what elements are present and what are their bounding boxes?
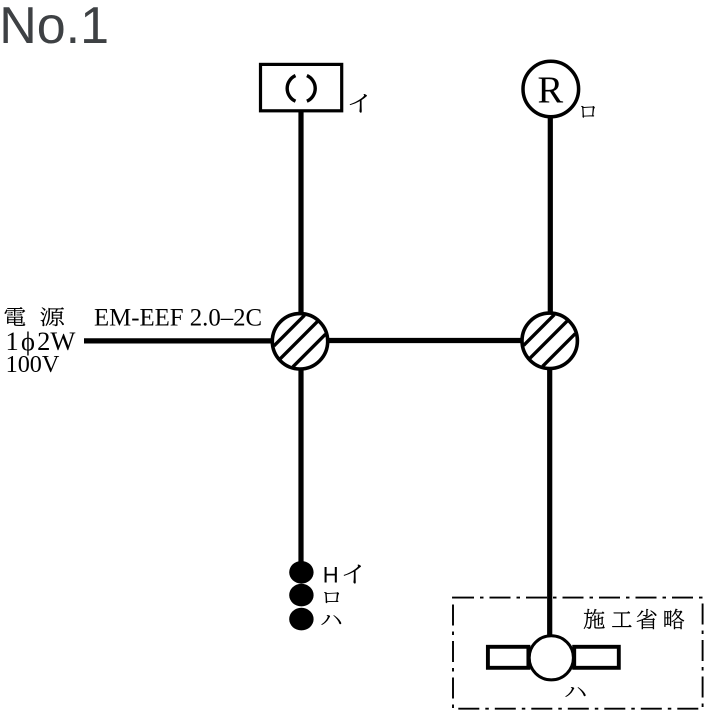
- svg-text:100V: 100V: [6, 351, 60, 378]
- svg-text:No.1: No.1: [0, 0, 109, 55]
- joint box J1 (VVF): [272, 314, 327, 369]
- label ロ (lamp receptacle): [581, 106, 595, 118]
- label 施工省略: [584, 609, 685, 630]
- fluorescent luminaire ハ: [488, 636, 619, 680]
- switch H イ: [289, 561, 313, 584]
- wire: joint box J1 to joint box J2: [324, 338, 526, 343]
- joint box J2 (VVF): [522, 313, 577, 368]
- wire: power source feed: [84, 338, 278, 343]
- svg-text:R: R: [538, 70, 564, 112]
- switch ハ: [289, 608, 313, 631]
- svg-text:H: H: [323, 562, 339, 587]
- wire: ceiling light to joint box J1: [298, 110, 303, 316]
- wire: joint box J1 to switches: [298, 366, 303, 562]
- svg-text:EM-EEF 2.0–2C: EM-EEF 2.0–2C: [94, 305, 262, 332]
- wire: joint box J2 to fluorescent light: [547, 366, 552, 637]
- label ハ (fluorescent): [565, 687, 586, 697]
- lamp receptacle R ロ: [523, 61, 579, 117]
- switch ロ: [289, 584, 313, 607]
- label イ (switch 1): [344, 565, 361, 584]
- ceiling rose (square) イ: [261, 64, 342, 110]
- construction-omitted boundary (dash-dot box): [453, 598, 703, 709]
- label イ (ceiling rose): [350, 94, 367, 113]
- power source label 電源 1ϕ2W 100V: [4, 307, 75, 378]
- wire: lamp receptacle R to joint box J2: [548, 115, 553, 316]
- label ハ (switch 3): [321, 615, 341, 625]
- label ロ (switch 2): [324, 592, 339, 603]
